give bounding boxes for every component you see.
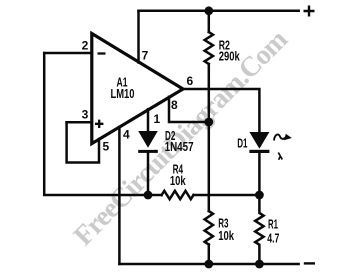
V+ plus terminal — [305, 7, 314, 16]
wire pin 3 non-inverting input — [67, 121, 91, 124]
junction node D2 / R4 / feedback — [144, 191, 153, 200]
wire pin 7 to V+ rail — [137, 11, 140, 63]
resistor R4 10k — [162, 191, 194, 199]
wire D1 cathode down to node — [258, 153, 261, 195]
wire pin 4 down to V- rail — [118, 127, 121, 264]
LED D1 body — [249, 132, 269, 149]
wire D2 cathode down to feedback node — [147, 152, 150, 195]
wire feedback left leg down — [44, 53, 161, 195]
svg-text:8: 8 — [171, 98, 178, 112]
wire V- bottom rail — [119, 263, 298, 266]
wire R2 bottom to pin8 node and R3 — [208, 64, 211, 211]
svg-text:1N457: 1N457 — [165, 140, 194, 154]
wire R2 branch top — [208, 11, 211, 32]
svg-text:10k: 10k — [170, 174, 186, 188]
diode D2 1N457 body — [138, 131, 158, 148]
LED D1 light arrow — [274, 134, 286, 140]
svg-text:290k: 290k — [219, 49, 240, 63]
svg-text:3: 3 — [82, 108, 89, 122]
V- minus terminal — [305, 262, 314, 264]
svg-text:2: 2 — [82, 38, 89, 52]
svg-text:7: 7 — [142, 49, 149, 63]
svg-text:LM10: LM10 — [111, 87, 135, 101]
svg-text:10k: 10k — [218, 229, 234, 243]
wire V+ top rail — [139, 10, 299, 13]
op-amp plus sign — [95, 120, 103, 128]
junction node R2 / V+ rail — [204, 6, 213, 15]
svg-text:R1: R1 — [268, 218, 278, 232]
svg-text:6: 6 — [186, 74, 193, 88]
svg-text:4.7: 4.7 — [267, 232, 279, 246]
junction node R3 / V- rail — [204, 260, 213, 269]
wire pin 8 stub — [169, 97, 209, 122]
wire R3 bottom to ground rail — [208, 245, 211, 265]
svg-text:D1: D1 — [237, 136, 247, 150]
LED D1 lambda mark — [278, 153, 282, 160]
resistor R2 290k — [205, 32, 213, 64]
svg-text:1: 1 — [153, 112, 160, 126]
svg-text:5: 5 — [103, 140, 110, 154]
wire pin3-pin5 loop — [67, 122, 99, 162]
resistor R3 10k — [205, 211, 213, 245]
wire pin 1 stub to D2 — [147, 109, 150, 131]
op-amp A1 LM10 triangle — [92, 34, 183, 144]
svg-text:R3: R3 — [218, 216, 228, 230]
op-amp minus sign — [98, 52, 106, 54]
wire op-amp output pin6 to D1 — [182, 89, 259, 132]
junction node pin8 / R2 / R3 — [204, 118, 213, 127]
svg-text:4: 4 — [123, 128, 130, 142]
wire pin 2 inverting input — [44, 52, 91, 55]
junction node R1 / V- rail — [255, 260, 264, 269]
resistor R1 4.7 — [255, 195, 263, 264]
wire R4 right to D1/R1 node — [194, 194, 260, 197]
junction node D1 / R1 / R4 — [255, 191, 264, 200]
